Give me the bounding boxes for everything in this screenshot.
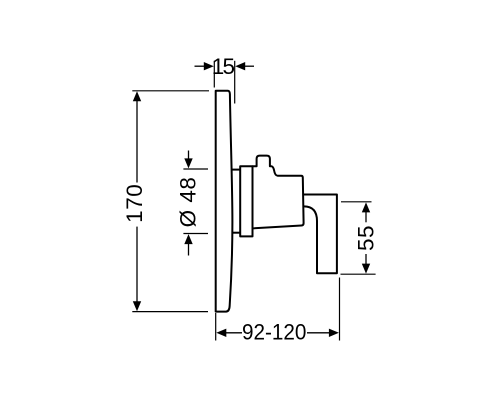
dim 170: bottom extension line bbox=[132, 311, 208, 313]
dim 170: top arrow bbox=[133, 91, 141, 101]
dim 55: dimension line with gap bbox=[365, 210, 367, 222]
dim Ø48: lower arrow pointing up bbox=[188, 244, 190, 256]
dim 92-120: right extension line bbox=[339, 278, 341, 341]
dim 15: right extension line bbox=[234, 61, 236, 104]
dim 92-120: dimension line with gap bbox=[226, 332, 243, 334]
dim 55: bottom extension line bbox=[341, 273, 376, 275]
dim Ø48: upper arrow pointing down bbox=[188, 151, 190, 160]
dim 15: left extension line bbox=[213, 61, 215, 88]
dim 92-120: left arrow bbox=[216, 329, 226, 337]
svg-text:92-120: 92-120 bbox=[242, 320, 307, 345]
dim Ø48: upper tick bbox=[183, 168, 208, 170]
svg-text:55: 55 bbox=[354, 225, 379, 251]
sleeve top edge bbox=[232, 169, 241, 171]
dim 15: right arrow bbox=[244, 65, 254, 67]
dim 170: top extension line bbox=[132, 90, 209, 92]
dim 170: dimension line with gap bbox=[136, 99, 138, 183]
dim 92-120: left extension line bbox=[215, 313, 217, 341]
dim Ø48: lower tick bbox=[183, 233, 208, 235]
body (cartridge housing) with stop button bbox=[252, 156, 303, 229]
handle lever bbox=[303, 195, 337, 274]
escutcheon plate (side profile) bbox=[216, 91, 233, 312]
dim 55: top extension line bbox=[341, 201, 372, 203]
dim 15: left arrow bbox=[195, 65, 206, 67]
sleeve bottom edge bbox=[232, 232, 240, 234]
dim 55: bottom arrow bbox=[362, 264, 370, 274]
svg-text:5: 5 bbox=[222, 54, 235, 79]
dim 55: top arrow bbox=[362, 202, 370, 212]
flange (mounting ring) bbox=[240, 166, 252, 236]
dim 92-120: right arrow bbox=[329, 329, 339, 337]
svg-text:Ø 48: Ø 48 bbox=[176, 177, 201, 228]
svg-text:170: 170 bbox=[122, 184, 147, 223]
dim 170: bottom arrow bbox=[133, 301, 141, 311]
